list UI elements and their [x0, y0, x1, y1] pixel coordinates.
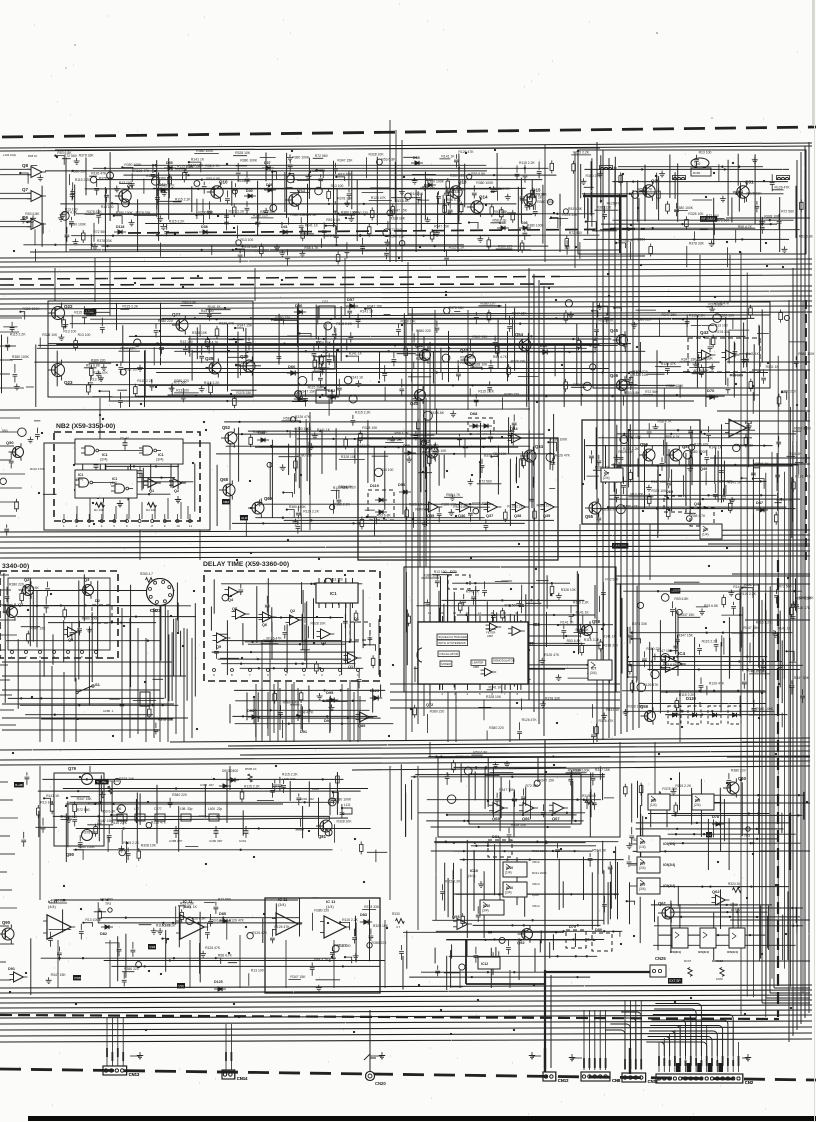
svg-text:R380 220: R380 220 — [9, 582, 24, 586]
svg-text:R72 560: R72 560 — [569, 231, 582, 235]
svg-text:Q2: Q2 — [290, 609, 295, 613]
svg-text:(3/4): (3/4) — [590, 671, 597, 675]
svg-text:R1 10K: R1 10K — [94, 508, 104, 512]
svg-text:L102 100p: L102 100p — [3, 153, 17, 157]
svg-text:10: 10 — [176, 524, 180, 528]
svg-text:R13 100: R13 100 — [699, 150, 712, 154]
svg-text:R126 47K: R126 47K — [274, 925, 290, 929]
svg-text:(1/4): (1/4) — [639, 845, 646, 849]
svg-text:R13 100: R13 100 — [251, 969, 264, 973]
svg-text:IC1: IC1 — [330, 591, 337, 596]
svg-text:R115 2.2K: R115 2.2K — [679, 693, 696, 697]
svg-text:R13 100: R13 100 — [90, 378, 103, 382]
svg-text:R72 560: R72 560 — [526, 784, 539, 788]
svg-text:IC6(1/4): IC6(1/4) — [727, 950, 738, 954]
svg-text:R126 47K: R126 47K — [555, 453, 571, 457]
svg-text:R72 560: R72 560 — [77, 808, 90, 812]
svg-text:R53 6.8K: R53 6.8K — [192, 916, 207, 920]
svg-text:R141 1K: R141 1K — [350, 376, 364, 380]
svg-text:D118: D118 — [116, 225, 124, 229]
svg-text:R13 100: R13 100 — [434, 570, 447, 574]
svg-text:R378 33K: R378 33K — [136, 211, 152, 215]
svg-text:Q7: Q7 — [22, 187, 29, 192]
svg-text:B+4B: B+4B — [15, 783, 22, 787]
svg-text:D35: D35 — [166, 161, 173, 165]
svg-text:R347 15K: R347 15K — [51, 973, 67, 977]
svg-text:Q58: Q58 — [592, 619, 601, 624]
svg-text:R141 1K: R141 1K — [603, 635, 617, 639]
svg-text:L111: L111 — [344, 803, 351, 807]
svg-text:(3/4): (3/4) — [482, 909, 489, 913]
svg-text:R58 4.7K: R58 4.7K — [446, 493, 461, 497]
svg-text:R328 10K: R328 10K — [486, 695, 502, 699]
svg-text:R347 15K: R347 15K — [300, 390, 316, 394]
svg-text:R58 4.7K: R58 4.7K — [691, 514, 706, 518]
svg-text:R378 33K: R378 33K — [717, 480, 733, 484]
svg-text:R58 1K: R58 1K — [28, 154, 37, 158]
svg-text:Q69: Q69 — [264, 496, 273, 501]
svg-text:VSB: VSB — [149, 945, 155, 949]
svg-text:R380 220: R380 220 — [253, 213, 268, 217]
svg-text:Q40: Q40 — [410, 401, 419, 406]
svg-text:R126 47K: R126 47K — [714, 302, 730, 306]
svg-text:R126 47K: R126 47K — [371, 196, 387, 200]
svg-text:TP2: TP2 — [105, 902, 111, 906]
svg-text:R53 6.8K: R53 6.8K — [377, 513, 392, 517]
svg-text:Q28: Q28 — [205, 356, 214, 361]
svg-text:Q55: Q55 — [585, 514, 594, 519]
svg-text:R380 100K: R380 100K — [240, 158, 258, 162]
svg-text:CN25: CN25 — [655, 956, 666, 961]
svg-text:R53 6.8K: R53 6.8K — [206, 177, 221, 181]
svg-text:R347 15K: R347 15K — [434, 225, 450, 229]
svg-text:Q22: Q22 — [64, 304, 73, 309]
svg-text:NB2 (X59-3350-00): NB2 (X59-3350-00) — [56, 423, 115, 430]
svg-text:Q29: Q29 — [240, 354, 249, 359]
svg-text:MIXER: MIXER — [441, 662, 451, 666]
svg-text:IC9(2/4): IC9(2/4) — [663, 863, 675, 867]
svg-text:CN14: CN14 — [237, 1076, 248, 1081]
svg-text:R380 100K: R380 100K — [116, 211, 134, 215]
svg-text:R378 33K: R378 33K — [603, 644, 619, 648]
svg-text:(4/4): (4/4) — [48, 905, 57, 909]
svg-text:DELAY TIME (X59-3360-00): DELAY TIME (X59-3360-00) — [203, 561, 289, 568]
svg-text:R380 100K: R380 100K — [666, 384, 684, 388]
svg-text:R4 10K: R4 10K — [146, 508, 156, 512]
svg-text:R13 100: R13 100 — [630, 492, 643, 496]
svg-text:R347 15K: R347 15K — [98, 819, 114, 823]
svg-text:R126 47K: R126 47K — [295, 415, 311, 419]
svg-text:D37: D37 — [264, 161, 271, 165]
svg-text:R115 2.2K: R115 2.2K — [342, 918, 359, 922]
svg-text:R13 100: R13 100 — [119, 181, 132, 185]
svg-text:R126 47K: R126 47K — [93, 371, 109, 375]
svg-text:IC6(3/4): IC6(3/4) — [670, 950, 681, 954]
svg-text:D93: D93 — [247, 709, 254, 713]
svg-text:R141 1K: R141 1K — [46, 794, 60, 798]
svg-text:R380 220: R380 220 — [416, 329, 431, 333]
svg-text:R110 470K: R110 470K — [30, 467, 45, 471]
svg-text:R378 33K: R378 33K — [662, 787, 678, 791]
svg-text:R53 6.8K: R53 6.8K — [568, 768, 583, 772]
svg-text:R150: R150 — [693, 171, 701, 175]
svg-text:D83: D83 — [360, 913, 367, 917]
svg-text:R328 10K: R328 10K — [719, 314, 735, 318]
svg-text:R141 1K: R141 1K — [208, 305, 222, 309]
svg-text:Q66: Q66 — [522, 816, 530, 821]
svg-text:C277: C277 — [154, 807, 162, 811]
svg-text:R380 220: R380 220 — [297, 454, 312, 458]
svg-text:D123: D123 — [370, 689, 379, 693]
svg-text:R58 4.7K: R58 4.7K — [314, 958, 329, 962]
svg-text:R53 6.8K: R53 6.8K — [674, 597, 689, 601]
svg-text:R380 220: R380 220 — [450, 174, 465, 178]
svg-text:WITH HYSTERESIS: WITH HYSTERESIS — [438, 641, 466, 645]
svg-text:ALM: ALM — [241, 516, 248, 520]
svg-text:IC6: IC6 — [533, 622, 541, 627]
svg-text:R72 560: R72 560 — [88, 802, 101, 806]
svg-text:R126 47K: R126 47K — [661, 362, 677, 366]
svg-text:IC6(4/4): IC6(4/4) — [698, 950, 709, 954]
svg-text:R126 47K: R126 47K — [544, 653, 560, 657]
svg-text:R328 10K: R328 10K — [341, 455, 357, 459]
svg-text:R58 4.7K: R58 4.7K — [218, 954, 233, 958]
svg-text:R13 100: R13 100 — [78, 333, 91, 337]
svg-text:R58 4.7K: R58 4.7K — [395, 432, 410, 436]
svg-text:Q89: Q89 — [358, 724, 365, 728]
svg-text:R72 560: R72 560 — [479, 479, 492, 483]
svg-text:Q6: Q6 — [262, 623, 267, 627]
svg-text:R126 47K: R126 47K — [775, 185, 791, 189]
svg-text:R378 33K: R378 33K — [242, 245, 258, 249]
svg-text:R328 10K: R328 10K — [401, 319, 417, 323]
svg-text:D91: D91 — [8, 967, 15, 971]
svg-text:R126 47K: R126 47K — [219, 321, 235, 325]
svg-text:R380 220: R380 220 — [51, 899, 66, 903]
svg-text:R324 1K: R324 1K — [728, 882, 741, 886]
svg-text:R115 2.2K: R115 2.2K — [169, 219, 186, 223]
svg-text:R13 100: R13 100 — [180, 340, 193, 344]
svg-text:R115 2.2K: R115 2.2K — [303, 509, 320, 513]
svg-text:R328 10K: R328 10K — [369, 153, 385, 157]
svg-text:R13 100: R13 100 — [65, 207, 78, 211]
svg-text:(2/4): (2/4) — [603, 476, 610, 480]
svg-text:Q38: Q38 — [514, 514, 521, 518]
svg-text:CN20: CN20 — [375, 1081, 386, 1086]
svg-text:VR14: VR14 — [532, 904, 540, 908]
svg-text:(1/4): (1/4) — [702, 533, 709, 537]
svg-text:R347 15K: R347 15K — [512, 312, 528, 316]
svg-text:R53 6.8K: R53 6.8K — [86, 363, 101, 367]
svg-text:Q3: Q3 — [84, 577, 90, 582]
svg-text:R141 1K: R141 1K — [357, 444, 371, 448]
svg-text:Q67: Q67 — [552, 816, 560, 821]
svg-text:4.7: 4.7 — [396, 925, 401, 929]
svg-text:R347 15K: R347 15K — [472, 335, 488, 339]
svg-text:R58 4.7K: R58 4.7K — [658, 419, 673, 423]
svg-text:R505 1K: R505 1K — [245, 767, 257, 771]
svg-text:R72 560: R72 560 — [645, 390, 658, 394]
svg-text:R13 100: R13 100 — [176, 388, 189, 392]
svg-text:R53 6.8K: R53 6.8K — [180, 901, 195, 905]
svg-text:R380 220: R380 220 — [314, 908, 329, 912]
svg-text:R378 33K: R378 33K — [364, 905, 380, 909]
svg-text:12: 12 — [478, 611, 482, 615]
svg-text:R72 560: R72 560 — [93, 230, 106, 234]
svg-text:R378 33K: R378 33K — [236, 391, 252, 395]
svg-text:C290 33P: C290 33P — [209, 839, 222, 843]
svg-text:R333: R333 — [392, 912, 400, 916]
svg-text:R380 100K: R380 100K — [573, 383, 591, 387]
svg-text:R347 15K: R347 15K — [595, 768, 611, 772]
svg-text:R115 2.2K: R115 2.2K — [229, 210, 246, 214]
svg-text:R328 10K: R328 10K — [311, 622, 327, 626]
svg-text:R380 100K: R380 100K — [196, 149, 214, 153]
svg-text:R72 560: R72 560 — [779, 585, 792, 589]
svg-text:R347 15K: R347 15K — [77, 797, 93, 801]
svg-text:R141 1K: R141 1K — [576, 628, 590, 632]
svg-text:Q2: Q2 — [174, 489, 179, 493]
svg-text:Q90: Q90 — [2, 920, 11, 925]
svg-text:R13 100: R13 100 — [241, 238, 254, 242]
svg-text:R328 10K: R328 10K — [431, 449, 447, 453]
svg-text:R347 15K: R347 15K — [499, 788, 515, 792]
svg-text:R380 220: R380 220 — [430, 710, 445, 714]
svg-text:R115 2.2K: R115 2.2K — [584, 638, 601, 642]
svg-text:R328 10K: R328 10K — [651, 489, 667, 493]
svg-text:IC 11: IC 11 — [278, 897, 288, 902]
svg-text:Q68: Q68 — [220, 477, 229, 482]
svg-text:AMP: AMP — [473, 665, 479, 669]
svg-text:R72 560: R72 560 — [781, 210, 794, 214]
svg-text:R328 10K: R328 10K — [362, 426, 378, 430]
svg-text:CN13: CN13 — [129, 1072, 140, 1077]
svg-text:R115 2.2K: R115 2.2K — [675, 784, 692, 788]
svg-text:R72 560: R72 560 — [505, 603, 518, 607]
svg-text:R126 47K: R126 47K — [160, 183, 176, 187]
svg-text:R13 100: R13 100 — [85, 918, 98, 922]
svg-text:R380 220: R380 220 — [537, 504, 552, 508]
svg-text:L98 .33p: L98 .33p — [180, 807, 193, 811]
svg-text:R115 2.2K: R115 2.2K — [75, 178, 92, 182]
svg-text:R126 47K: R126 47K — [91, 172, 107, 176]
svg-text:R141 1K: R141 1K — [184, 905, 198, 909]
svg-text:D40: D40 — [246, 189, 253, 193]
svg-text:Q43: Q43 — [700, 330, 709, 335]
svg-text:C291: C291 — [239, 839, 247, 843]
svg-text:R126 47K: R126 47K — [420, 187, 436, 191]
svg-text:D82: D82 — [100, 932, 107, 936]
svg-text:Q79: Q79 — [68, 766, 77, 771]
svg-text:R13 100: R13 100 — [330, 577, 343, 581]
svg-text:Q2: Q2 — [24, 577, 30, 582]
svg-text:NB2: NB2 — [223, 500, 229, 504]
svg-text:R328 10K: R328 10K — [456, 755, 472, 759]
svg-text:R115 2.2K: R115 2.2K — [175, 197, 192, 201]
svg-text:IC9(4/4): IC9(4/4) — [663, 884, 675, 888]
svg-text:Q62: Q62 — [712, 889, 720, 894]
svg-text:Q49: Q49 — [700, 467, 707, 471]
svg-text:R141 1K: R141 1K — [746, 352, 760, 356]
svg-text:R328 10K: R328 10K — [628, 705, 644, 709]
svg-text:R328 10K: R328 10K — [42, 333, 58, 337]
svg-text:S1: S1 — [95, 682, 101, 687]
svg-text:CN2: CN2 — [745, 1080, 754, 1085]
svg-text:R328 10K: R328 10K — [337, 820, 353, 824]
svg-text:R141 1K: R141 1K — [146, 174, 160, 178]
svg-text:D57: D57 — [347, 297, 355, 302]
svg-text:R115 2.2K: R115 2.2K — [702, 639, 719, 643]
svg-text:Q60: Q60 — [738, 776, 747, 781]
svg-text:R13 100: R13 100 — [715, 324, 728, 328]
svg-text:Q45: Q45 — [610, 328, 619, 333]
svg-text:IC9(1/4): IC9(1/4) — [663, 842, 675, 846]
svg-text:(3/4): (3/4) — [639, 887, 646, 891]
svg-text:C280 .1: C280 .1 — [103, 709, 114, 713]
svg-text:R58 4.7K: R58 4.7K — [493, 355, 508, 359]
svg-text:IC8: IC8 — [651, 799, 656, 803]
svg-text:R380 220: R380 220 — [172, 793, 187, 797]
svg-text:Q27: Q27 — [172, 312, 181, 317]
svg-text:R115 2.2K: R115 2.2K — [74, 310, 91, 314]
svg-text:R58 4.7K: R58 4.7K — [638, 187, 653, 191]
svg-text:R53 6.8K: R53 6.8K — [430, 411, 445, 415]
svg-text:DEMODULATOR: DEMODULATOR — [493, 659, 515, 663]
svg-text:R380 220: R380 220 — [198, 210, 213, 214]
svg-text:IC9: IC9 — [640, 841, 645, 845]
svg-text:IC9: IC9 — [640, 883, 645, 887]
svg-text:R380 220: R380 220 — [416, 357, 431, 361]
svg-text:R380 220: R380 220 — [253, 430, 268, 434]
svg-text:R328 10K: R328 10K — [390, 217, 406, 221]
svg-text:R347 15K: R347 15K — [539, 779, 555, 783]
svg-text:R347 15K: R347 15K — [744, 626, 760, 630]
svg-text:R115 2.2K: R115 2.2K — [740, 592, 757, 596]
svg-text:11: 11 — [189, 524, 192, 528]
svg-text:R328 10K: R328 10K — [141, 844, 157, 848]
svg-text:R141 1K: R141 1K — [237, 179, 251, 183]
svg-text:R126 47K: R126 47K — [205, 946, 221, 950]
svg-text:R380 100K: R380 100K — [537, 200, 555, 204]
svg-text:R126 47K: R126 47K — [643, 683, 659, 687]
svg-text:R58 4.7K: R58 4.7K — [493, 218, 508, 222]
svg-text:(2/4): (2/4) — [694, 803, 701, 807]
svg-text:L400 .22p: L400 .22p — [208, 807, 222, 811]
svg-text:(1/4): (1/4) — [650, 803, 657, 807]
svg-text:R380 100K: R380 100K — [676, 206, 694, 210]
svg-text:R53 6.8K: R53 6.8K — [473, 751, 488, 755]
svg-text:R328 10K: R328 10K — [235, 151, 251, 155]
svg-text:R126 47K: R126 47K — [694, 443, 710, 447]
svg-text:IC4: IC4 — [678, 651, 686, 656]
svg-text:Q1: Q1 — [149, 489, 154, 493]
svg-text:L96: L96 — [116, 807, 122, 811]
svg-text:R141 1K: R141 1K — [466, 590, 480, 594]
svg-text:R328 10K: R328 10K — [472, 363, 488, 367]
svg-text:R347 15K: R347 15K — [237, 324, 253, 328]
svg-text:R378 33K: R378 33K — [511, 360, 527, 364]
svg-text:R115 2.2K: R115 2.2K — [573, 601, 590, 605]
svg-text:R72 560: R72 560 — [174, 381, 187, 385]
svg-text:D56: D56 — [295, 303, 303, 308]
svg-text:R380 100K: R380 100K — [476, 181, 494, 185]
svg-text:R53 6.8K: R53 6.8K — [25, 212, 40, 216]
svg-text:R58 4.7K: R58 4.7K — [666, 435, 681, 439]
svg-text:Q10: Q10 — [219, 180, 228, 185]
svg-text:R53 6.8K: R53 6.8K — [567, 639, 582, 643]
svg-text:D85: D85 — [219, 912, 226, 916]
svg-text:CF1: CF1 — [322, 300, 329, 304]
svg-text:R378 33K: R378 33K — [97, 239, 113, 243]
svg-text:R380 220: R380 220 — [498, 245, 513, 249]
svg-text:R380 100K: R380 100K — [292, 155, 310, 159]
svg-text:Q50: Q50 — [6, 440, 14, 445]
svg-text:R141 1K: R141 1K — [305, 224, 319, 228]
svg-text:R380 100K: R380 100K — [527, 223, 545, 227]
svg-text:R347 15K: R347 15K — [662, 313, 678, 317]
svg-text:Q8: Q8 — [22, 163, 29, 168]
svg-text:R328 10K: R328 10K — [511, 823, 527, 827]
svg-text:R115 2.2K: R115 2.2K — [282, 772, 299, 776]
svg-text:R115 2.2K: R115 2.2K — [308, 386, 325, 390]
svg-text:R328 10K: R328 10K — [409, 502, 425, 506]
svg-text:R347 15K: R347 15K — [367, 304, 383, 308]
svg-text:Tm2: Tm2 — [694, 162, 701, 166]
svg-text:R328 10K: R328 10K — [472, 502, 488, 506]
svg-text:R141 1K: R141 1K — [560, 620, 574, 624]
svg-text:PWM: PWM — [74, 976, 82, 980]
svg-text:AMP: AMP — [487, 634, 493, 638]
svg-text:R380 220: R380 220 — [71, 170, 86, 174]
svg-text:R378 33K: R378 33K — [632, 622, 648, 626]
svg-text:R141 1K: R141 1K — [191, 158, 205, 162]
svg-text:R13 100: R13 100 — [331, 184, 344, 188]
svg-text:(4/4): (4/4) — [110, 481, 117, 485]
svg-text:R380 100K: R380 100K — [798, 352, 816, 356]
svg-text:R141 1K: R141 1K — [410, 192, 424, 196]
svg-text:(2/4): (2/4) — [639, 866, 646, 870]
svg-text:(3/4): (3/4) — [156, 458, 163, 462]
svg-text:R115 2.2K: R115 2.2K — [204, 381, 221, 385]
svg-text:R328 10K: R328 10K — [387, 438, 403, 442]
svg-text:R115 2.2K: R115 2.2K — [10, 332, 27, 336]
svg-text:D71: D71 — [450, 570, 457, 574]
svg-text:R380 220: R380 220 — [489, 726, 504, 730]
svg-text:R115 2.2K: R115 2.2K — [122, 305, 139, 309]
svg-text:EXT SP: EXT SP — [669, 979, 680, 983]
svg-text:R13 100: R13 100 — [338, 172, 351, 176]
svg-text:IC1: IC1 — [102, 453, 108, 457]
svg-text:R115 2.2K: R115 2.2K — [519, 161, 536, 165]
svg-text:R58 4.7K: R58 4.7K — [204, 341, 219, 345]
svg-text:R53 6.8K: R53 6.8K — [704, 604, 719, 608]
svg-text:R347 15K: R347 15K — [389, 235, 405, 239]
svg-text:CN8: CN8 — [612, 1078, 621, 1083]
svg-text:IC9: IC9 — [640, 862, 645, 866]
svg-text:R380 220: R380 220 — [372, 941, 387, 945]
svg-text:R72 560: R72 560 — [218, 897, 231, 901]
svg-text:(3/4): (3/4) — [278, 903, 287, 907]
svg-text:Q80: Q80 — [66, 852, 75, 857]
svg-text:14: 14 — [453, 611, 457, 615]
svg-text:R72 560: R72 560 — [315, 154, 328, 158]
svg-text:(1/4): (1/4) — [505, 871, 512, 875]
svg-text:R115 2.2K: R115 2.2K — [334, 503, 351, 507]
svg-text:D68: D68 — [470, 411, 478, 416]
svg-text:(2/4): (2/4) — [100, 458, 107, 462]
svg-text:R378 33K: R378 33K — [337, 197, 353, 201]
svg-text:3340-00): 3340-00) — [2, 563, 29, 570]
